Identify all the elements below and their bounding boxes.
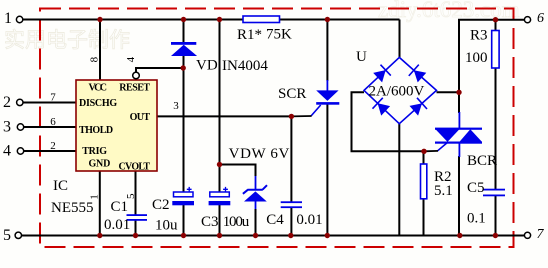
- node: C2 bus: [181, 233, 186, 238]
- wire: R2 bottom lead: [423, 199, 425, 236]
- svg-text:6: 6: [50, 116, 56, 128]
- wire: gate node down to C4: [290, 116, 292, 202]
- wire: terminal 4 to TRIG: [23, 150, 76, 152]
- capacitor C1: [127, 214, 148, 221]
- svg-text:CVOLT: CVOLT: [119, 162, 151, 173]
- node: bridge right / BCR: [456, 90, 461, 95]
- resistor R2: [421, 164, 427, 199]
- capacitor C2 electrolytic: [172, 187, 194, 205]
- reset circle: [133, 72, 140, 79]
- svg-text:5: 5: [3, 227, 11, 244]
- node: VD anode / reset: [181, 65, 186, 70]
- svg-text:2A/600V: 2A/600V: [369, 84, 425, 100]
- terminal 1: [16, 16, 22, 22]
- node: gate / R2: [421, 149, 426, 154]
- wire: zener branch jog: [220, 165, 256, 177]
- wire: SCR anode blue lead: [326, 80, 328, 91]
- svg-text:2: 2: [3, 94, 11, 111]
- wire: terminal 3 to THOLD: [23, 126, 76, 128]
- terminal 6: [524, 17, 530, 23]
- svg-text:IC: IC: [53, 178, 68, 194]
- node: VD tap: [181, 17, 186, 22]
- wire: C1 to bus: [135, 220, 137, 236]
- terminal 7: [524, 232, 530, 238]
- terminal 2: [17, 99, 23, 105]
- svg-text:3: 3: [3, 119, 11, 136]
- thyristor SCR: [291, 90, 339, 116]
- wire: C4 to bus: [290, 207, 292, 236]
- svg-text:1: 1: [89, 194, 101, 200]
- node: SCR bus: [325, 233, 330, 238]
- svg-text:7: 7: [50, 92, 56, 104]
- wire: reset jog to VD anode: [136, 68, 183, 72]
- dashed enclosure box: [40, 9, 514, 248]
- svg-text:IN4004: IN4004: [222, 58, 268, 74]
- IC U1 NE555 body: [76, 80, 157, 171]
- svg-text:8: 8: [89, 56, 101, 62]
- svg-text:0.1: 0.1: [467, 211, 486, 227]
- svg-text:75K: 75K: [266, 27, 292, 43]
- svg-text:0.01: 0.01: [296, 212, 322, 228]
- wire: zener to bus: [255, 209, 257, 236]
- svg-text:4: 4: [3, 143, 11, 160]
- capacitor C4: [281, 201, 302, 208]
- wire: bridge top drop: [399, 20, 401, 58]
- node: C1 bus: [133, 233, 138, 238]
- node: VCC tap: [97, 17, 102, 22]
- svg-text:C5: C5: [467, 180, 485, 196]
- wire: terminal 2 to DISCHG: [23, 102, 76, 104]
- svg-text:100: 100: [465, 50, 488, 66]
- wire: bridge left to gate node: [352, 92, 425, 151]
- wire: bridge bottom drop to bus: [398, 124, 400, 236]
- svg-text:10u: 10u: [155, 218, 178, 234]
- svg-text:C4: C4: [266, 212, 284, 228]
- wire: bridge right to BCR line: [437, 91, 460, 93]
- svg-text:OUT: OUT: [130, 112, 151, 123]
- wire: VCC pin: [99, 20, 101, 81]
- node: C4 bus: [288, 233, 293, 238]
- svg-text:C3: C3: [201, 214, 219, 230]
- wire: R3 top lead: [495, 20, 497, 31]
- svg-text:实用电子制作: 实用电子制作: [4, 28, 130, 52]
- wire: C3 to bus: [219, 205, 221, 236]
- svg-text:5.1: 5.1: [434, 183, 453, 199]
- wire: triac lower lead: [458, 156, 460, 236]
- zener diode VDW: [243, 185, 267, 201]
- svg-text:U: U: [356, 49, 367, 65]
- wire: zener top lead: [255, 176, 257, 190]
- node: BCR bus: [457, 233, 462, 238]
- svg-text:100u: 100u: [223, 214, 250, 230]
- terminal 5: [15, 232, 21, 238]
- wire: C3 / R1 branch: [219, 20, 221, 193]
- triac BCR: [424, 112, 482, 157]
- svg-text:VDW 6V: VDW 6V: [229, 146, 290, 162]
- wire: C2 to bus: [183, 205, 185, 236]
- wire: zener bottom lead: [255, 202, 257, 211]
- capacitor C3 electrolytic: [209, 187, 231, 205]
- svg-text:2: 2: [50, 140, 56, 152]
- wire: SCR cathode to bus: [326, 105, 328, 236]
- node: SCR anode tap: [325, 17, 330, 22]
- node: C3/R1 tap: [217, 17, 222, 22]
- capacitor C5: [483, 189, 505, 197]
- svg-text:6: 6: [537, 11, 544, 26]
- wire: VD / C2 branch: [183, 20, 185, 43]
- svg-text:THOLD: THOLD: [79, 125, 113, 136]
- svg-text:TRIG: TRIG: [82, 146, 107, 157]
- svg-text:R3: R3: [470, 28, 488, 44]
- terminal 4: [17, 148, 23, 154]
- svg-text:VCC: VCC: [89, 83, 108, 94]
- wire: CVOLT pin to C1: [135, 171, 137, 216]
- node: R3 tap: [493, 17, 498, 22]
- node: zener branch: [217, 162, 222, 167]
- svg-text:VD: VD: [196, 58, 218, 74]
- svg-text:7: 7: [537, 227, 545, 242]
- node: C3 bus: [217, 233, 222, 238]
- resistor R3: [492, 31, 499, 69]
- svg-text:R1*: R1*: [237, 27, 262, 43]
- node: OUT / gate / C4: [289, 114, 294, 119]
- svg-text:RESET: RESET: [119, 83, 150, 94]
- svg-text:DISCHG: DISCHG: [79, 98, 117, 109]
- svg-text:C1: C1: [111, 199, 129, 215]
- svg-text:4: 4: [125, 56, 137, 62]
- terminal 3: [17, 124, 23, 130]
- node: GND bus: [97, 233, 102, 238]
- svg-text:C2: C2: [152, 197, 170, 213]
- svg-text:3: 3: [173, 100, 179, 112]
- svg-text:SCR: SCR: [278, 86, 306, 102]
- wire: OUT pin to gate node: [157, 115, 291, 117]
- wire: R2 top lead: [423, 151, 425, 164]
- wire: GND pin to bus: [99, 171, 101, 236]
- diode VD 1N4004: [171, 42, 197, 56]
- svg-text:1: 1: [4, 10, 12, 27]
- svg-text:BCR: BCR: [467, 153, 497, 169]
- node: C5 bus: [493, 233, 498, 238]
- svg-text:NE555: NE555: [51, 200, 94, 216]
- wire: C5 to bus: [495, 196, 497, 236]
- resistor R1: [243, 16, 280, 23]
- wire: reset pin stub: [135, 79, 137, 81]
- wire: bottom bus: [22, 235, 525, 237]
- svg-text:GND: GND: [89, 159, 111, 170]
- node: zener bus: [253, 233, 258, 238]
- wire: R3 to C5: [495, 68, 497, 189]
- wire: top bus from terminal 1: [23, 19, 400, 21]
- bridge rectifier U: [364, 57, 437, 123]
- wire: terminal 6 branch: [459, 20, 524, 113]
- wire: SCR anode from top bus: [326, 20, 328, 82]
- svg-text:0.01: 0.01: [104, 217, 130, 233]
